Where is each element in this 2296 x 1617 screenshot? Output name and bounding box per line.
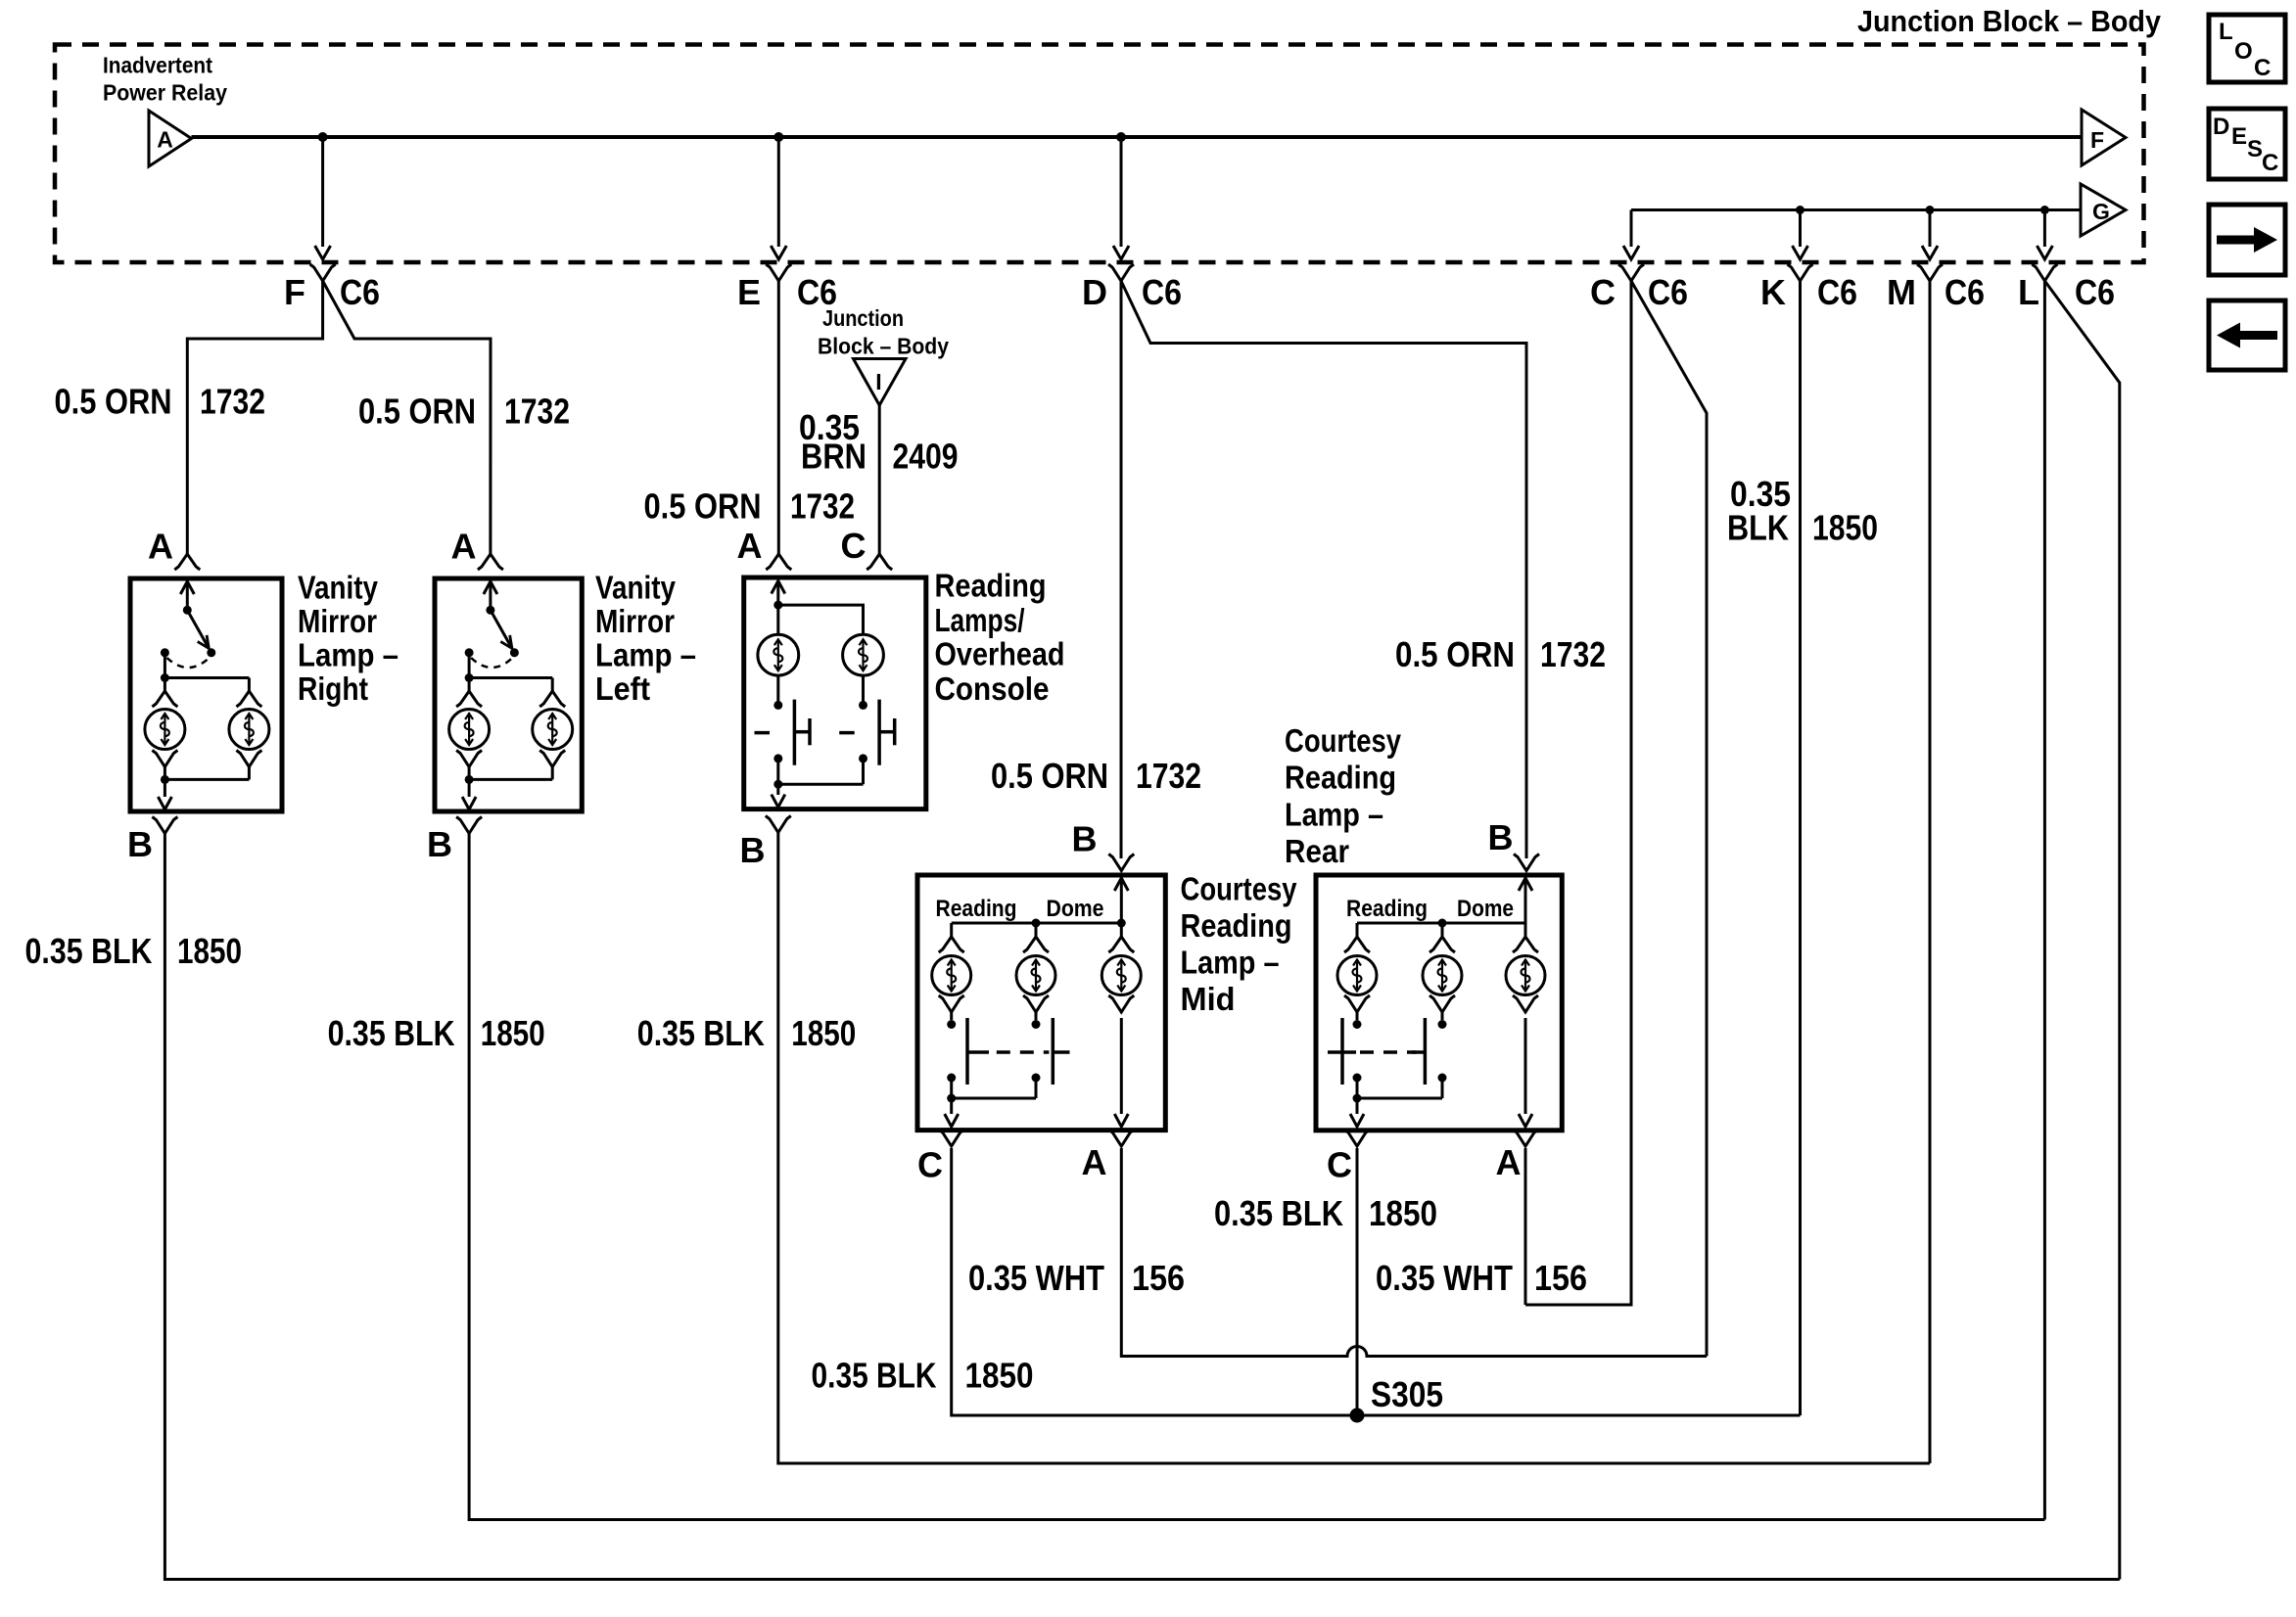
- svg-text:0.5 ORN: 0.5 ORN: [358, 392, 476, 432]
- svg-text:C: C: [1590, 272, 1616, 312]
- connector C (Rear): [1344, 1130, 1370, 1146]
- connector C6 cavity D: [1108, 264, 1134, 281]
- lamp feed bus: [1357, 922, 1525, 925]
- switch output dot right: [859, 754, 867, 762]
- junction dot bus mid: [1032, 919, 1041, 928]
- lamp feed connectors: [939, 937, 964, 952]
- svg-text:Console: Console: [935, 670, 1050, 707]
- svg-text:0.5 ORN: 0.5 ORN: [55, 382, 172, 422]
- junction dot at E drop: [773, 132, 783, 142]
- svg-text:1850: 1850: [1369, 1193, 1437, 1233]
- svg-text:1732: 1732: [200, 382, 265, 422]
- svg-text:2409: 2409: [893, 437, 959, 477]
- svg-text:A: A: [1082, 1142, 1107, 1182]
- svg-text:C6: C6: [340, 272, 380, 312]
- junction dot bus mid: [1438, 919, 1447, 928]
- connector A (Vanity Right): [174, 554, 200, 570]
- svg-text:1850: 1850: [1812, 508, 1878, 548]
- lamp return connectors: [152, 751, 177, 767]
- svg-text:Reading: Reading: [1181, 907, 1292, 944]
- junction dot at F drop: [318, 132, 328, 142]
- svg-text:1732: 1732: [790, 486, 855, 527]
- component Reading Lamps/Overhead Console: [744, 577, 926, 809]
- svg-text:F: F: [2090, 127, 2104, 153]
- connector triangle F: [2082, 110, 2126, 165]
- svg-text:B: B: [1488, 817, 1514, 857]
- console switch right: [839, 731, 855, 735]
- wire F to Vanity Right A: [187, 281, 322, 554]
- junction dot return: [947, 1094, 956, 1103]
- svg-text:A: A: [1496, 1142, 1522, 1182]
- connector C6 cavity C: [1618, 264, 1644, 281]
- connector C (Mid): [939, 1130, 964, 1146]
- connector C6 cavity E: [766, 264, 791, 281]
- svg-text:C: C: [917, 1145, 943, 1185]
- lamp bulb left: [145, 710, 185, 750]
- console exit wire with down arrow: [776, 784, 779, 795]
- svg-text:S305: S305: [1371, 1374, 1443, 1414]
- lamp bus wires: [164, 676, 249, 679]
- switch contact dot (moving end): [510, 648, 519, 657]
- svg-text:0.35 BLK: 0.35 BLK: [25, 931, 153, 971]
- wire C branch to Mid lamp A run: [1631, 281, 1707, 1357]
- svg-text:Rear: Rear: [1285, 833, 1349, 869]
- svg-text:E: E: [737, 272, 761, 312]
- component Courtesy Reading Lamp - Rear: [1316, 875, 1562, 1131]
- svg-text:B: B: [740, 830, 766, 870]
- svg-text:C: C: [2254, 55, 2271, 81]
- svg-text:Inadvertent: Inadvertent: [103, 52, 212, 77]
- component Vanity Mirror Lamp - Right: [130, 578, 282, 811]
- switch fixed contact dot: [161, 648, 169, 657]
- connector A (Vanity Left): [478, 554, 503, 570]
- lamp feed connectors: [456, 691, 482, 707]
- svg-text:0.35 BLK: 0.35 BLK: [812, 1356, 937, 1396]
- wire Vanity Left B to bottom run: [469, 834, 2044, 1520]
- wire drop C inside junction block: [1630, 210, 1633, 248]
- wire drop D inside junction block: [1120, 137, 1123, 247]
- exit wire C with down arrow: [950, 1098, 953, 1114]
- contact dot left: [773, 701, 782, 710]
- svg-text:A: A: [157, 127, 173, 153]
- lamp feed connectors: [152, 691, 177, 707]
- lamp feed connectors: [1344, 937, 1370, 952]
- svg-text:Lamp –: Lamp –: [1285, 796, 1383, 832]
- lamp bulb right: [229, 710, 269, 750]
- svg-text:C6: C6: [1142, 272, 1182, 312]
- switch blades and linkage: [1340, 1018, 1344, 1085]
- wire A terminal entry with up arrow: [489, 584, 492, 610]
- connector B (console): [766, 816, 791, 833]
- switch fixed contact dot: [465, 648, 474, 657]
- component Vanity Mirror Lamp - Left: [435, 578, 582, 811]
- wire drop K inside junction block: [1799, 210, 1802, 248]
- console lamp outputs: [776, 675, 779, 705]
- wire bus G: [1631, 208, 2081, 211]
- switch contact dots top: [947, 1020, 956, 1029]
- junction dot console feed: [773, 601, 782, 610]
- svg-text:A: A: [148, 527, 173, 567]
- svg-text:C: C: [841, 526, 867, 566]
- lamp bulb right: [533, 710, 573, 750]
- reading lamp 2: [1016, 956, 1055, 995]
- console feed bus: [778, 605, 864, 634]
- console lamp left: [758, 634, 799, 675]
- switch output dot left: [773, 754, 782, 762]
- connector C6 cavity L: [2032, 264, 2057, 281]
- junction dot lamp bus: [161, 673, 169, 682]
- svg-text:Right: Right: [298, 670, 368, 707]
- reading lamp 1: [1337, 956, 1377, 995]
- svg-text:1732: 1732: [1136, 756, 1201, 796]
- stubs to lamp connectors: [1356, 923, 1359, 937]
- junction dot at M drop: [1926, 206, 1935, 214]
- svg-text:Reading: Reading: [936, 896, 1017, 922]
- wire Rear A down to C run: [1524, 1148, 1527, 1305]
- switch contact dots bottom: [1353, 1074, 1362, 1083]
- reading lamp 2: [1423, 956, 1462, 995]
- switch travel dashed arc: [166, 658, 209, 668]
- wire C to Rear lamp A (ground side): [1525, 281, 1631, 1305]
- lamp bus wires: [469, 676, 552, 679]
- svg-text:C: C: [1327, 1145, 1352, 1185]
- svg-text:0.35 WHT: 0.35 WHT: [1376, 1258, 1513, 1298]
- svg-text:L: L: [2219, 19, 2233, 45]
- svg-text:S: S: [2247, 136, 2263, 162]
- dome wire down to A with arrow: [1524, 1018, 1527, 1114]
- wire Vanity Right B to bottom run: [164, 834, 2119, 1580]
- junction dot at L drop: [2040, 206, 2049, 214]
- svg-text:F: F: [284, 272, 305, 312]
- svg-text:Left: Left: [595, 670, 650, 707]
- connector B (Rear): [1514, 855, 1539, 871]
- legend box LOC: [2209, 15, 2285, 82]
- svg-text:0.35 BLK: 0.35 BLK: [328, 1013, 455, 1053]
- svg-text:Reading: Reading: [1285, 760, 1396, 796]
- lamp return connectors: [939, 995, 964, 1012]
- svg-text:1732: 1732: [504, 392, 570, 432]
- svg-text:E: E: [2231, 123, 2247, 150]
- wire console A entry with up arrow: [776, 584, 779, 605]
- exit wire C with down arrow: [1356, 1098, 1359, 1114]
- switch travel dashed arc: [471, 658, 512, 668]
- wire Mid A down and right (0.35 WHT 156) with hop: [1121, 1148, 1707, 1357]
- wire B entry with up arrow: [1120, 881, 1123, 923]
- svg-text:Vanity: Vanity: [298, 570, 379, 606]
- wire Mid C down to S305 run: [952, 1148, 1801, 1415]
- splice S305 dot: [1350, 1409, 1365, 1423]
- switch contact dots top: [1353, 1020, 1362, 1029]
- svg-text:B: B: [1072, 819, 1098, 859]
- main bus wire from A to F: [192, 135, 2083, 139]
- connector B (Vanity Right): [152, 817, 177, 834]
- svg-text:O: O: [2234, 38, 2253, 65]
- component Courtesy Reading Lamp - Mid: [917, 875, 1165, 1131]
- connector triangle I: [854, 359, 907, 406]
- wire F to Vanity Left A: [323, 281, 491, 554]
- switch common dot: [486, 606, 494, 615]
- wire L down to Vanity Left B run: [2043, 281, 2046, 1520]
- svg-text:Power Relay: Power Relay: [103, 79, 227, 105]
- connector A (Mid): [1108, 1130, 1134, 1146]
- svg-text:1850: 1850: [791, 1013, 856, 1053]
- svg-text:1850: 1850: [177, 931, 242, 971]
- wire to B with down arrow: [468, 779, 471, 797]
- svg-text:Mid: Mid: [1181, 981, 1236, 1017]
- connector C6 cavity K: [1788, 264, 1813, 281]
- svg-text:D: D: [1082, 272, 1107, 312]
- wire I to console C: [878, 405, 881, 554]
- connector B (Mid): [1108, 855, 1134, 871]
- wire L branch down to Vanity Right B run: [2044, 281, 2119, 1580]
- svg-text:I: I: [875, 369, 881, 394]
- svg-text:1850: 1850: [481, 1013, 545, 1053]
- svg-text:Mirror: Mirror: [595, 603, 675, 639]
- svg-text:D: D: [2213, 114, 2229, 140]
- svg-text:Junction Block – Body: Junction Block – Body: [1857, 4, 2162, 38]
- svg-text:Lamps/: Lamps/: [935, 602, 1025, 638]
- svg-text:Vanity: Vanity: [595, 570, 677, 606]
- lamp feed bus: [952, 922, 1122, 925]
- console lamp right: [843, 634, 884, 675]
- connector triangle G: [2081, 184, 2126, 236]
- return bus wire: [469, 778, 552, 781]
- junction dot at K drop: [1796, 206, 1804, 214]
- svg-text:A: A: [451, 527, 477, 567]
- junction dot at D drop: [1116, 132, 1126, 142]
- junction dot console return: [773, 780, 782, 789]
- wire console B to bottom run: [778, 833, 1930, 1464]
- svg-text:Overhead: Overhead: [935, 636, 1065, 672]
- junction dot return bus: [465, 775, 474, 784]
- svg-text:Courtesy: Courtesy: [1181, 871, 1298, 907]
- svg-text:G: G: [2092, 199, 2110, 224]
- svg-text:BLK: BLK: [1727, 508, 1789, 548]
- wire to B with down arrow: [164, 779, 166, 797]
- junction dot return bus: [161, 775, 169, 784]
- lamp return connectors: [1344, 995, 1370, 1012]
- connector triangle A (Inadvertent Power Relay): [149, 111, 192, 166]
- wire drop E inside junction block: [777, 137, 780, 247]
- wire drop M inside junction block: [1929, 210, 1932, 248]
- svg-text:K: K: [1760, 272, 1786, 312]
- svg-text:1732: 1732: [1540, 634, 1606, 674]
- dome lamp: [1506, 956, 1545, 995]
- svg-text:M: M: [1887, 272, 1916, 312]
- reading lamp 1: [932, 956, 971, 995]
- wire fixed contact to lamp bus: [164, 653, 166, 678]
- junction dot bus at B column (Mid): [1117, 919, 1126, 928]
- lamp bulb left: [449, 710, 490, 750]
- dome wire down to A with arrow: [1120, 1018, 1123, 1114]
- svg-text:0.35 BLK: 0.35 BLK: [637, 1013, 765, 1053]
- wire E to console A: [777, 281, 780, 554]
- connector C6 cavity M: [1917, 264, 1943, 281]
- switch return bus: [950, 1078, 953, 1098]
- switch blade with arrow: [491, 610, 512, 648]
- switch return bus: [1356, 1078, 1359, 1098]
- svg-text:Dome: Dome: [1457, 896, 1514, 922]
- wire M down to console B run: [1929, 281, 1932, 1463]
- legend box DESC: [2209, 109, 2285, 179]
- connector A (console): [766, 554, 791, 570]
- return bus wire: [164, 778, 249, 781]
- svg-text:1850: 1850: [965, 1356, 1034, 1396]
- svg-text:Reading: Reading: [1346, 896, 1428, 922]
- svg-text:0.5 ORN: 0.5 ORN: [991, 756, 1108, 796]
- legend box right arrow: [2209, 205, 2285, 275]
- svg-text:156: 156: [1534, 1258, 1587, 1298]
- switch contact dots bottom: [947, 1074, 956, 1083]
- switch common dot: [183, 606, 192, 615]
- contact dot right: [859, 701, 867, 710]
- svg-text:Block – Body: Block – Body: [818, 334, 949, 359]
- wire D branch to Rear lamp B: [1121, 281, 1526, 858]
- svg-text:0.5 ORN: 0.5 ORN: [1395, 634, 1515, 674]
- legend box left arrow: [2209, 300, 2285, 370]
- svg-text:C6: C6: [1817, 272, 1857, 312]
- svg-text:Dome: Dome: [1047, 896, 1104, 922]
- console return bus: [776, 759, 779, 784]
- svg-text:Junction: Junction: [822, 305, 904, 331]
- junction block dashed box: [55, 45, 2144, 263]
- stubs to lamp connectors: [950, 923, 953, 937]
- wire B entry with up arrow: [1524, 881, 1527, 923]
- svg-text:0.35 WHT: 0.35 WHT: [968, 1258, 1104, 1298]
- svg-text:BRN: BRN: [801, 437, 867, 477]
- wire drop F inside junction block: [321, 137, 324, 247]
- svg-text:A: A: [737, 526, 763, 566]
- connector B (Vanity Left): [456, 817, 482, 834]
- wire drop L inside junction block: [2043, 210, 2046, 248]
- svg-text:L: L: [2018, 272, 2039, 312]
- svg-text:C6: C6: [2075, 272, 2115, 312]
- connector C6 cavity F: [310, 264, 336, 281]
- svg-text:Mirror: Mirror: [298, 603, 377, 639]
- switch blades and linkage: [965, 1018, 969, 1085]
- connector C (console): [867, 554, 892, 570]
- junction dot return: [1353, 1094, 1362, 1103]
- console switch left: [755, 731, 771, 735]
- svg-text:0.35 BLK: 0.35 BLK: [1214, 1193, 1343, 1233]
- svg-text:Lamp –: Lamp –: [298, 636, 398, 672]
- junction dot lamp bus: [465, 673, 474, 682]
- wire fixed contact to lamp bus: [468, 653, 471, 678]
- connector A (Rear): [1513, 1130, 1538, 1146]
- svg-text:C: C: [2262, 150, 2278, 176]
- wire A terminal entry with up arrow: [186, 584, 189, 610]
- wire K down to S305 run: [1799, 281, 1802, 1415]
- svg-text:Lamp –: Lamp –: [1181, 945, 1280, 981]
- wire Rear C down to S305: [1356, 1148, 1359, 1415]
- wire D to Mid lamp B: [1120, 281, 1123, 858]
- dome lamp: [1101, 956, 1141, 995]
- svg-text:C6: C6: [1945, 272, 1985, 312]
- lamp return connectors: [456, 751, 482, 767]
- svg-text:B: B: [127, 824, 153, 864]
- switch contact dot (moving end): [207, 648, 215, 657]
- svg-text:C6: C6: [1648, 272, 1688, 312]
- svg-text:156: 156: [1132, 1258, 1185, 1298]
- svg-text:Reading: Reading: [935, 568, 1047, 604]
- svg-text:Lamp –: Lamp –: [595, 636, 696, 672]
- svg-text:0.5 ORN: 0.5 ORN: [644, 486, 762, 527]
- svg-text:Courtesy: Courtesy: [1285, 722, 1402, 759]
- switch blade with arrow: [187, 610, 209, 648]
- svg-text:B: B: [427, 824, 452, 864]
